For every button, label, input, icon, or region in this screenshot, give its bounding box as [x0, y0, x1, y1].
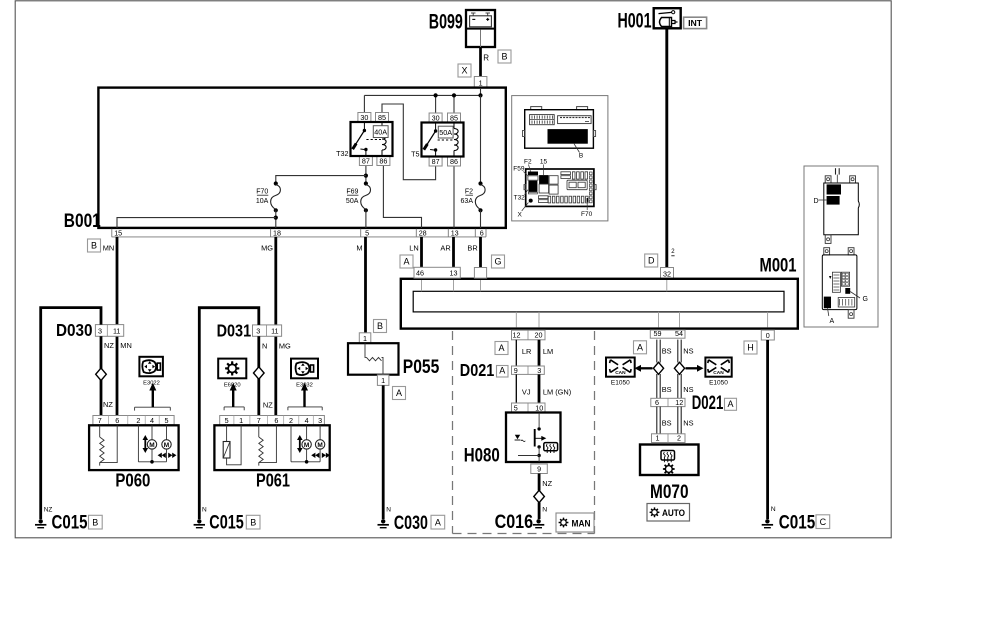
svg-text:MG: MG [279, 341, 291, 350]
svg-text:LN: LN [409, 243, 418, 252]
location inset radio and fusebox [512, 96, 608, 221]
svg-text:6: 6 [115, 416, 119, 425]
mirror assembly P061 box [214, 425, 329, 470]
pin 9 of H080 [531, 464, 548, 474]
svg-text:3: 3 [537, 366, 541, 375]
mirror assembly P060 pins [93, 416, 174, 426]
svg-text:E1050: E1050 [611, 380, 630, 387]
svg-text:NZ: NZ [542, 479, 552, 488]
splice on NZ [96, 368, 107, 380]
fuse F70 10A [256, 181, 281, 212]
svg-text:54: 54 [675, 329, 683, 338]
svg-text:F2: F2 [524, 158, 532, 165]
washer heater H080 box [506, 413, 561, 463]
resistor in P061 [259, 425, 277, 465]
wire BS segment 3 [656, 407, 658, 434]
svg-text:A: A [498, 343, 504, 353]
svg-text:A: A [637, 342, 643, 352]
svg-text:X: X [518, 211, 523, 218]
svg-text:0: 0 [766, 331, 770, 340]
svg-text:T5: T5 [411, 150, 419, 159]
svg-text:9: 9 [537, 464, 541, 473]
svg-text:C030: C030 [394, 512, 428, 534]
mirror motors in P061 [291, 425, 330, 463]
svg-text:59: 59 [654, 329, 662, 338]
connector D021 pins 6 12 [651, 398, 685, 407]
ground C015 B [194, 507, 260, 534]
wire NS segment 2 [677, 374, 679, 398]
svg-text:D: D [648, 256, 655, 266]
svg-text:85: 85 [378, 113, 386, 122]
svg-text:NS: NS [683, 418, 693, 427]
pins 46 13 of M001 [414, 267, 460, 278]
svg-text:N: N [262, 341, 267, 350]
wire NS segment 1 [677, 340, 679, 363]
svg-text:LM: LM [543, 347, 553, 356]
pins 59 54 of M001 [650, 330, 685, 338]
wire NS segment 3 [677, 407, 679, 434]
svg-text:G: G [494, 257, 501, 267]
svg-text:B001: B001 [64, 210, 101, 232]
svg-text:MN: MN [103, 243, 115, 252]
svg-text:AUTO: AUTO [662, 508, 685, 518]
wire M [364, 237, 367, 333]
svg-text:LM (GN): LM (GN) [543, 387, 571, 396]
pins 5 10 of H080 [512, 403, 546, 413]
wire NZ [538, 474, 541, 491]
svg-text:28: 28 [419, 228, 427, 237]
wire N from D031 pin 3 up [199, 308, 258, 519]
node INT [684, 17, 707, 28]
svg-text:M: M [149, 442, 154, 449]
relay T5 [411, 113, 463, 166]
svg-text:E3022: E3022 [143, 380, 160, 386]
svg-text:5: 5 [514, 403, 518, 412]
wire feed from pin 1 [480, 88, 482, 95]
svg-text:50A: 50A [439, 128, 452, 137]
wire branch to F70 [276, 176, 366, 184]
svg-text:C015: C015 [209, 512, 244, 534]
location inset body computer [804, 166, 878, 327]
svg-text:B: B [579, 153, 583, 160]
node D [645, 254, 658, 267]
svg-text:C015: C015 [779, 512, 816, 534]
splice [534, 490, 545, 502]
svg-text:A: A [435, 518, 441, 528]
svg-text:F69: F69 [346, 189, 358, 196]
connector D021 pins 9 3 [512, 366, 545, 375]
svg-text:BS: BS [662, 418, 672, 427]
node A [400, 255, 413, 268]
svg-text:11: 11 [113, 327, 120, 336]
wire F69 to pin 5 [365, 210, 367, 228]
connector D031 pins 3 11 [253, 325, 282, 336]
node junction pin 18 [274, 216, 278, 220]
connector D030 pins 3 11 [95, 325, 123, 337]
pins 12 20 of M001 [512, 330, 546, 340]
relay T32 [336, 113, 392, 166]
svg-text:M001: M001 [760, 254, 797, 276]
wire LM GN [538, 374, 541, 403]
svg-text:H: H [747, 343, 754, 353]
wire MG [274, 237, 277, 416]
mirror icon E3032 [291, 359, 318, 389]
svg-text:M: M [317, 442, 322, 449]
svg-text:C015: C015 [52, 512, 88, 534]
wire N from D031 pin 3 down [257, 336, 260, 415]
svg-text:86: 86 [450, 157, 458, 166]
ground C016 [495, 511, 545, 533]
svg-text:MG: MG [261, 243, 273, 252]
node A [495, 342, 508, 355]
wire R from B099 [479, 47, 482, 77]
node B [374, 320, 387, 333]
svg-text:15: 15 [114, 228, 122, 237]
wire AR [452, 237, 455, 267]
svg-text:11: 11 [271, 327, 278, 336]
svg-text:50A: 50A [346, 198, 359, 205]
svg-text:4: 4 [305, 416, 309, 425]
variant MAN dashed box [453, 331, 595, 534]
svg-text:87: 87 [432, 157, 440, 166]
wire BS segment 2 [656, 374, 658, 398]
heated mirror icon E6020 [218, 359, 246, 389]
svg-text:2: 2 [136, 416, 140, 425]
svg-text:6: 6 [655, 398, 659, 407]
svg-text:18: 18 [273, 228, 281, 237]
svg-text:40A: 40A [374, 128, 387, 137]
fuse F2 63A [461, 181, 486, 212]
svg-text:86: 86 [379, 156, 387, 165]
svg-text:P061: P061 [256, 470, 290, 490]
svg-text:F70: F70 [256, 189, 268, 196]
wire to T32 pin 30 [363, 95, 365, 112]
svg-text:B: B [501, 52, 507, 62]
node H [744, 341, 757, 354]
svg-text:15: 15 [540, 158, 548, 165]
mirror assembly P060 box [89, 425, 179, 470]
svg-text:5: 5 [365, 228, 369, 237]
node B [498, 50, 511, 63]
svg-text:3: 3 [318, 416, 322, 425]
variant MAN tag [556, 513, 594, 532]
svg-text:1: 1 [239, 416, 243, 425]
svg-text:10A: 10A [256, 198, 269, 205]
arrow to right E1050 [686, 365, 704, 372]
wire junction to pin 15 [117, 218, 276, 228]
location inset fuse panel [513, 158, 596, 218]
svg-text:NZ: NZ [263, 401, 273, 410]
svg-text:3: 3 [256, 327, 260, 336]
svg-text:10: 10 [535, 403, 543, 412]
svg-text:N: N [771, 506, 776, 513]
svg-text:F70: F70 [581, 211, 593, 218]
svg-text:M070: M070 [650, 481, 689, 503]
node A [634, 341, 647, 354]
svg-text:LR: LR [522, 347, 531, 356]
svg-text:P055: P055 [403, 356, 440, 378]
node tee F70 branch [364, 174, 368, 178]
ground C030 A [378, 507, 445, 534]
svg-text:12: 12 [675, 398, 683, 407]
svg-text:2: 2 [289, 416, 293, 425]
wire MN [116, 237, 119, 416]
pin 0 of M001 [761, 330, 774, 340]
svg-text:INT: INT [688, 19, 702, 28]
wire T32-86 to pin 28 [383, 166, 421, 228]
node junction T5-30 [434, 93, 438, 97]
svg-text:4: 4 [150, 416, 154, 425]
svg-text:D030: D030 [56, 320, 93, 340]
splice on N [254, 367, 265, 379]
svg-text:T32: T32 [336, 149, 348, 158]
svg-text:M: M [304, 442, 309, 449]
svg-text:B099: B099 [429, 11, 463, 34]
svg-text:30: 30 [360, 113, 368, 122]
CAN node E1050 left [606, 358, 635, 387]
resistor in P060 [100, 425, 118, 465]
svg-text:D: D [814, 198, 819, 205]
svg-text:1: 1 [479, 79, 483, 88]
pin 1 bottom of P055 [377, 375, 389, 386]
wire to T5 pin 85 [453, 95, 455, 113]
svg-text:F59: F59 [513, 166, 525, 173]
node junction F2 feed [478, 93, 482, 97]
svg-text:B: B [91, 241, 97, 251]
svg-text:20: 20 [535, 331, 543, 340]
svg-text:N: N [386, 507, 391, 514]
wire F70 to junction [275, 210, 277, 228]
wire bus 30 [364, 94, 480, 96]
wire note 2 [671, 249, 675, 256]
svg-text:A: A [396, 388, 402, 398]
wire LN [420, 237, 423, 267]
node B [88, 239, 101, 252]
svg-text:MN: MN [120, 341, 132, 350]
wire LM [538, 340, 541, 366]
svg-text:87: 87 [362, 156, 370, 165]
svg-text:C: C [820, 517, 827, 527]
pin 32 of M001 [661, 268, 674, 279]
svg-text:D021: D021 [460, 360, 495, 380]
wire BR [479, 237, 482, 267]
dashboard node M001 box [401, 279, 798, 329]
svg-text:9: 9 [514, 366, 518, 375]
wire N to C030 [382, 385, 385, 519]
junction unit B001 box [98, 88, 505, 228]
svg-text:VJ: VJ [522, 387, 531, 396]
svg-text:5: 5 [225, 416, 229, 425]
svg-text:6: 6 [274, 416, 278, 425]
svg-text:NZ: NZ [104, 341, 114, 350]
svg-text:R: R [483, 54, 489, 63]
mirror motors in P060 [138, 425, 176, 463]
arrow to E3022 [135, 383, 171, 411]
CAN node E1050 right [705, 358, 731, 387]
mirror icon E3022 [139, 357, 163, 387]
svg-text:63A: 63A [461, 198, 474, 205]
svg-text:X: X [461, 66, 467, 76]
wire T32-87 down [365, 166, 367, 184]
svg-text:B: B [377, 321, 383, 331]
svg-text:3: 3 [98, 327, 102, 336]
arrow to E6020 [224, 383, 244, 411]
wire LR [515, 340, 517, 366]
svg-text:D021: D021 [692, 392, 724, 414]
wire NZ from D030 pin 3 up [41, 308, 101, 519]
svg-text:T32: T32 [514, 195, 526, 202]
svg-text:2: 2 [677, 434, 681, 443]
mirror assembly P061 pins [220, 416, 325, 426]
variant AUTO tag [647, 504, 690, 522]
wire N from M001 pin 0 [766, 340, 769, 519]
svg-text:12: 12 [513, 331, 521, 340]
svg-text:CAN: CAN [713, 370, 724, 376]
svg-text:A: A [499, 366, 505, 376]
splice on BS [653, 362, 663, 374]
node junction T5-85 [452, 93, 456, 97]
wire VJ [515, 374, 517, 403]
pin row of B001 [112, 228, 486, 237]
svg-text:A: A [403, 257, 409, 267]
fuse F69 50A [346, 181, 371, 212]
connector D021 label [692, 392, 737, 414]
svg-text:D031: D031 [217, 320, 252, 340]
node A [393, 387, 406, 400]
climate control M070 box [640, 445, 699, 476]
svg-text:AR: AR [440, 243, 450, 252]
node G [492, 255, 505, 268]
svg-text:13: 13 [450, 269, 458, 278]
svg-text:7: 7 [257, 416, 261, 425]
wire N [538, 503, 541, 520]
svg-text:H001: H001 [618, 10, 652, 33]
wire T5-86 to pin 13 [453, 166, 455, 228]
svg-text:7: 7 [98, 416, 102, 425]
svg-text:32: 32 [663, 269, 671, 278]
arrow to E3032 [288, 383, 322, 411]
heater element in P061 [223, 425, 241, 465]
svg-text:BS: BS [662, 385, 672, 394]
svg-text:P060: P060 [115, 470, 150, 490]
connector D021 label [460, 360, 508, 380]
svg-text:1: 1 [363, 334, 367, 343]
svg-text:BR: BR [467, 243, 477, 252]
svg-text:NZ: NZ [103, 400, 113, 409]
page frame [15, 1, 891, 538]
wire from H001 to M001 pin 32 [665, 28, 668, 267]
wire T32-85 to T5-87 [382, 104, 436, 180]
cigar lighter H001 symbol [654, 8, 681, 28]
arrow to left E1050 [635, 365, 653, 372]
svg-text:30: 30 [432, 113, 440, 122]
svg-text:85: 85 [450, 113, 458, 122]
svg-text:A: A [830, 318, 835, 325]
node X [458, 64, 471, 77]
wire to T5 pin 30 [435, 95, 437, 113]
svg-text:5: 5 [165, 416, 169, 425]
pin 1 of B001 [474, 77, 487, 88]
svg-text:13: 13 [451, 228, 459, 237]
pins 1 2 of M070 [652, 434, 686, 443]
svg-text:G: G [863, 296, 868, 303]
ground C015 C [762, 512, 830, 534]
svg-text:BS: BS [662, 347, 672, 356]
resistor P055 box [348, 343, 399, 375]
svg-text:MAN: MAN [572, 518, 591, 529]
splice on NS [674, 362, 684, 374]
pin 1 of P055 [359, 333, 371, 343]
svg-text:1: 1 [656, 434, 660, 443]
svg-text:M: M [356, 243, 362, 252]
svg-text:H080: H080 [464, 444, 500, 466]
ground C015 B [35, 506, 102, 533]
wire NZ from D030 pin 3 down [100, 336, 103, 415]
svg-text:1: 1 [381, 376, 385, 385]
svg-text:CAN: CAN [615, 370, 626, 376]
svg-text:NS: NS [683, 347, 693, 356]
svg-text:F2: F2 [465, 189, 473, 196]
wire BS segment 1 [656, 340, 658, 363]
svg-text:B: B [250, 518, 256, 528]
battery B099 symbol [466, 10, 495, 47]
svg-text:6: 6 [480, 228, 484, 237]
svg-text:E1050: E1050 [709, 380, 728, 387]
wire to fuse F2 [480, 95, 482, 183]
svg-text:N: N [542, 507, 547, 514]
svg-text:M: M [164, 442, 169, 449]
svg-text:N: N [202, 507, 207, 514]
wire F2 to pin 6 [480, 210, 482, 228]
pin G of M001 [474, 268, 486, 279]
svg-text:B: B [92, 518, 98, 528]
svg-text:46: 46 [416, 269, 424, 278]
svg-text:A: A [727, 399, 733, 409]
svg-text:C016: C016 [495, 511, 534, 533]
